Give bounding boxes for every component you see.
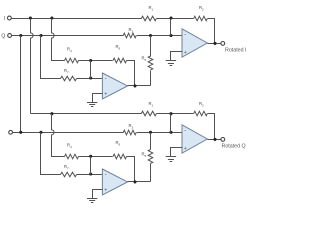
wire node A vertical bbox=[170, 19, 172, 36]
resistor R5b (vertical) bbox=[148, 150, 153, 164]
resistor R4b (lower mid r1 input) bbox=[65, 154, 79, 159]
junction U4 output bbox=[213, 138, 216, 141]
resistor R3b (lower terminal row) bbox=[123, 130, 136, 135]
svg-text:R1: R1 bbox=[149, 5, 154, 11]
svg-text:Rotated I: Rotated I bbox=[225, 48, 247, 54]
wire I row left bbox=[12, 18, 142, 20]
junction node A bottom bbox=[169, 34, 172, 37]
resistor R7 (mid r2 input) bbox=[61, 76, 77, 81]
input terminal Q bbox=[8, 34, 12, 38]
svg-text:R5: R5 bbox=[142, 152, 147, 158]
wire lower row1 to node bbox=[157, 113, 194, 115]
ground U1 plus bbox=[87, 103, 97, 107]
wire R5 top leg bbox=[150, 36, 152, 57]
junction U2 output bbox=[213, 42, 216, 45]
svg-text:R3: R3 bbox=[129, 27, 134, 33]
wire U4 output bbox=[208, 139, 221, 141]
svg-text:+: + bbox=[104, 188, 107, 194]
svg-text:-: - bbox=[105, 172, 107, 178]
wire vertical B (I to lower row1) bbox=[31, 19, 34, 114]
output terminal Rotated Q bbox=[221, 138, 225, 142]
junction terminal/A bbox=[19, 131, 22, 134]
junction node A top bbox=[169, 16, 172, 19]
wire R5b top leg bbox=[150, 133, 152, 150]
junction lower mid minus node bbox=[89, 172, 92, 175]
wire U3 output row bbox=[128, 181, 151, 183]
wire U3 plus to ground bbox=[93, 190, 103, 199]
junction U1 output bbox=[133, 84, 136, 87]
svg-text:R6: R6 bbox=[116, 140, 121, 146]
svg-text:R7: R7 bbox=[64, 68, 69, 74]
svg-text:-: - bbox=[184, 32, 186, 38]
wire lower mid node vertical bbox=[90, 157, 92, 175]
svg-text:R1: R1 bbox=[149, 101, 154, 107]
svg-text:R2: R2 bbox=[199, 101, 204, 107]
junction mid minus node bbox=[89, 76, 92, 79]
wire lower row1 left bbox=[31, 113, 142, 115]
wire vertical A (Q to lower terminal row) bbox=[20, 36, 22, 133]
svg-text:R4: R4 bbox=[67, 143, 72, 149]
wire feedback corner down to output bbox=[208, 19, 215, 44]
svg-text:R5: R5 bbox=[142, 56, 147, 62]
svg-text:-: - bbox=[105, 76, 107, 82]
wire I row to node/feedback bbox=[157, 18, 194, 20]
wire U2 plus to ground bbox=[171, 52, 183, 61]
resistor R1 (I row) bbox=[141, 16, 156, 21]
svg-text:R6: R6 bbox=[116, 44, 121, 50]
input terminal lower (Q) bbox=[9, 130, 13, 134]
resistor R4 (mid r1 input) bbox=[65, 58, 79, 63]
junction U3 output bbox=[133, 180, 136, 183]
resistor R1b (lower row1) bbox=[141, 111, 156, 116]
ground U2 plus bbox=[166, 61, 176, 66]
resistor R6 (mid feedback) bbox=[113, 58, 126, 63]
junction I/B bbox=[29, 16, 32, 19]
junction Q/A bbox=[19, 34, 22, 37]
resistor R3 (Q row) bbox=[123, 33, 136, 38]
resistor R5 (vertical) bbox=[148, 56, 153, 70]
wire lower feedback corner down bbox=[208, 114, 215, 140]
op-amp U3 (mid inverter bottom) bbox=[102, 169, 127, 195]
junction row1/D' bbox=[50, 112, 53, 115]
svg-text:I: I bbox=[4, 16, 5, 22]
junction I/D bbox=[50, 16, 53, 19]
wire vertical D (I to mid r1 row) bbox=[52, 19, 65, 61]
wire vertical C' (terminal to lower mid r2) bbox=[41, 133, 61, 175]
resistor R2b (lower feedback) bbox=[194, 111, 208, 116]
svg-text:R7: R7 bbox=[64, 164, 69, 170]
wire lower r1 row mid bbox=[79, 156, 113, 158]
svg-text:-: - bbox=[184, 128, 186, 134]
svg-text:R4: R4 bbox=[67, 47, 72, 53]
wire r2 row to mid op-amp minus bbox=[77, 78, 103, 80]
ground U3 plus bbox=[87, 199, 97, 203]
svg-text:+: + bbox=[184, 50, 187, 56]
op-amp U2 (summing top) bbox=[182, 29, 207, 57]
wire Q row bbox=[12, 35, 124, 37]
wire vertical D' (row1 to lower mid r1) bbox=[52, 114, 65, 157]
junction terminal/C' bbox=[39, 131, 42, 134]
wire U1 output row bbox=[128, 85, 151, 87]
wire node B vertical bbox=[170, 114, 172, 133]
wire mid feedback corner down bbox=[127, 61, 135, 86]
resistor R7b (lower mid r2 input) bbox=[61, 172, 77, 177]
resistor R2 (top feedback) bbox=[194, 16, 208, 21]
output terminal Rotated I bbox=[221, 42, 225, 46]
wire R5 bottom leg bbox=[150, 71, 152, 86]
wire vertical C (Q to mid r2 row) bbox=[41, 36, 61, 79]
junction R5 top bbox=[149, 34, 152, 37]
svg-text:+: + bbox=[104, 92, 107, 98]
svg-text:R2: R2 bbox=[199, 5, 204, 11]
junction lower mid fb node bbox=[89, 155, 92, 158]
wire lower terminal row to op-amp minus bbox=[137, 132, 183, 134]
wire Q row to op-amp minus bbox=[137, 35, 183, 37]
wire U1 plus to ground bbox=[93, 94, 103, 103]
svg-text:Rotated Q: Rotated Q bbox=[222, 144, 246, 150]
junction mid fb node bbox=[89, 59, 92, 62]
svg-text:Q: Q bbox=[1, 33, 5, 39]
op-amp U1 (mid inverter top) bbox=[102, 73, 127, 99]
wire U2 output bbox=[208, 43, 221, 45]
svg-text:+: + bbox=[184, 146, 187, 152]
wire R5b bottom leg bbox=[150, 164, 152, 182]
resistor R6b (lower mid feedback) bbox=[113, 154, 126, 159]
junction node B bottom bbox=[169, 131, 172, 134]
wire lower r2 row to mid op-amp minus bbox=[77, 174, 103, 176]
wire lower terminal row bbox=[13, 132, 124, 134]
junction node B top bbox=[169, 112, 172, 115]
ground U4 plus bbox=[166, 157, 176, 162]
wire lower mid feedback corner down bbox=[127, 157, 135, 182]
svg-text:R3: R3 bbox=[129, 123, 134, 129]
junction Q/C bbox=[39, 34, 42, 37]
input terminal I bbox=[7, 16, 11, 20]
junction R5b top bbox=[149, 131, 152, 134]
wire r1 row mid bbox=[79, 60, 113, 62]
wire mid node vertical bbox=[90, 61, 92, 79]
op-amp U4 (summing bottom) bbox=[182, 125, 207, 153]
wire U4 plus to ground bbox=[171, 148, 183, 157]
